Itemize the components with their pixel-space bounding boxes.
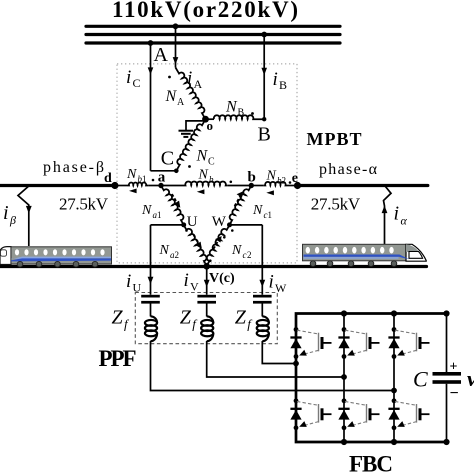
svg-text:+: +: [450, 360, 458, 375]
wire Nb1 to a: [148, 185, 161, 187]
svg-text:d: d: [104, 171, 112, 186]
wire dc-link cap leg: [446, 314, 448, 443]
junction dot leg2 mid: [341, 374, 347, 380]
current arrow iW: [259, 280, 265, 288]
node o: [202, 116, 209, 123]
FBC leg 2: [343, 314, 345, 443]
current arrow Nc1: [235, 193, 243, 206]
svg-text:N: N: [165, 88, 178, 105]
node b: [249, 183, 254, 188]
wire phase-alpha catenary: [298, 184, 428, 187]
node a: [158, 183, 163, 188]
wire phase-beta catenary: [0, 184, 115, 187]
node V on rail: [203, 263, 210, 270]
svg-text:−: −: [450, 385, 459, 402]
bus line 3: [86, 41, 340, 44]
IGBT cell S3 top leg3: [388, 327, 429, 359]
svg-text:N: N: [196, 148, 209, 165]
wire C corner: [151, 170, 177, 172]
winding NA: [176, 65, 209, 119]
wire b to Nb2: [251, 185, 263, 187]
svg-text:1: 1: [142, 174, 147, 184]
junction dot leg3 mid: [391, 388, 397, 394]
svg-text:2: 2: [247, 250, 252, 260]
svg-text:27.5kV: 27.5kV: [311, 195, 361, 214]
node B tap on bus: [261, 32, 267, 38]
winding Nb: [184, 181, 228, 185]
wire phase B feed: [263, 35, 265, 120]
train right: [303, 244, 427, 266]
current arrow i-beta: [26, 206, 32, 214]
svg-text:i: i: [394, 203, 400, 225]
svg-text:i: i: [126, 67, 131, 88]
train left: [0, 247, 112, 267]
svg-text:B: B: [279, 78, 287, 92]
junction dot cap top: [443, 310, 449, 316]
winding Nb1: [127, 182, 148, 185]
svg-text:a: a: [158, 170, 166, 186]
svg-text:N: N: [225, 99, 238, 116]
svg-text:i: i: [273, 69, 278, 90]
current arrow i-alpha: [382, 206, 388, 214]
inductor W branch: [257, 316, 269, 341]
polarity dot Nc2: [223, 236, 226, 239]
polarity dot Nc1: [231, 229, 234, 232]
bus line 1: [86, 25, 340, 28]
IGBT cell S6 bottom leg3: [388, 398, 429, 430]
polarity dot NC: [188, 165, 191, 168]
svg-text:N: N: [198, 168, 209, 183]
polarity arrow Nb2: [266, 190, 274, 195]
junction dot leg2 top: [341, 310, 347, 316]
svg-text:i: i: [126, 271, 131, 292]
bus line 2: [86, 33, 340, 36]
polarity dot Nb1: [152, 179, 155, 182]
IGBT cell S1 top leg1: [290, 327, 331, 359]
IGBT cell S5 bottom leg2: [338, 398, 379, 430]
svg-text:2: 2: [282, 176, 287, 186]
junction dot leg3 top: [391, 310, 397, 316]
wire U filter branch: [151, 225, 395, 391]
FBC bottom rail: [296, 391, 447, 443]
svg-text:o: o: [207, 118, 214, 133]
svg-text:C: C: [208, 157, 215, 168]
polarity arrow Nb: [197, 189, 205, 194]
wire d to Nb1: [115, 185, 127, 187]
svg-text:1: 1: [268, 210, 273, 220]
svg-text:b: b: [248, 170, 256, 186]
svg-text:PPF: PPF: [99, 346, 137, 371]
capacitor V branch: [197, 295, 216, 298]
junction dot leg2 bottom: [341, 439, 347, 445]
current arrow iB: [261, 68, 267, 75]
polarity arrow Nb1: [129, 189, 137, 194]
winding Nb2: [263, 182, 287, 186]
junction dot C winding end: [174, 169, 179, 174]
FBC top rail: [296, 314, 447, 391]
winding Na1: [161, 183, 187, 224]
wire Nb2 to e: [288, 185, 298, 187]
polarity dot NB: [251, 112, 254, 115]
pantograph wire right: [384, 186, 392, 244]
current arrow iV: [204, 280, 210, 288]
svg-text:N: N: [266, 169, 277, 184]
svg-text:2: 2: [175, 250, 180, 260]
IGBT cell S2 top leg2: [338, 327, 379, 359]
wire W tap to right: [230, 224, 263, 226]
node e: [294, 182, 301, 189]
pantograph wire left: [18, 186, 29, 246]
svg-text:110kV(or220kV): 110kV(or220kV): [112, 0, 298, 22]
capacitor U branch: [141, 295, 160, 298]
winding NB: [206, 118, 215, 120]
svg-text:β: β: [9, 213, 16, 227]
wire W filter branch: [262, 225, 296, 364]
current arrow Nc2: [214, 238, 220, 249]
svg-text:N: N: [126, 167, 137, 182]
inductor V branch: [201, 316, 213, 341]
svg-text:A: A: [177, 97, 185, 108]
wire a to Nb: [161, 185, 184, 187]
svg-text:B: B: [258, 124, 271, 146]
svg-text:MPBT: MPBT: [307, 129, 362, 149]
svg-text:i: i: [184, 270, 189, 291]
svg-text:Z: Z: [235, 307, 247, 329]
svg-text:B: B: [238, 108, 245, 119]
inductor U branch: [145, 316, 157, 341]
PPF dashed boundary box: [135, 293, 277, 344]
svg-text:v: v: [467, 366, 474, 391]
svg-text:V: V: [190, 280, 199, 294]
current arrow Na1: [172, 194, 178, 205]
svg-text:N: N: [231, 243, 242, 258]
polarity dot Nb: [230, 181, 233, 184]
wire phase C feed: [150, 43, 152, 171]
MPBT dotted boundary box: [117, 64, 297, 263]
node U tap: [181, 222, 186, 227]
svg-text:C: C: [161, 148, 174, 170]
svg-text:N: N: [141, 203, 152, 218]
ground at node o: [186, 121, 206, 130]
FBC leg 3: [393, 314, 395, 443]
svg-text:e: e: [292, 171, 298, 186]
svg-text:b: b: [209, 175, 214, 185]
svg-text:FBC: FBC: [349, 452, 393, 474]
svg-text:U: U: [133, 281, 142, 295]
svg-text:N: N: [252, 203, 263, 218]
svg-text:A: A: [194, 77, 203, 91]
svg-text:C: C: [413, 367, 428, 392]
svg-text:phase-α: phase-α: [319, 161, 378, 178]
node A tap on bus: [173, 23, 179, 29]
polarity dot Na1: [185, 229, 188, 232]
svg-text:W: W: [212, 214, 227, 230]
current arrow iA: [173, 57, 179, 64]
wire Nb to b: [228, 185, 252, 187]
svg-text:1: 1: [157, 210, 162, 220]
junction dot leg3 bottom: [391, 439, 397, 445]
polarity dot Nb2: [289, 181, 292, 184]
svg-text:A: A: [154, 44, 169, 66]
polarity dot NA: [168, 76, 171, 79]
svg-text:27.5kV: 27.5kV: [59, 195, 109, 214]
wire U tap to left: [151, 224, 184, 226]
current arrow iU: [148, 277, 154, 285]
svg-text:α: α: [401, 214, 408, 228]
svg-text:C: C: [133, 76, 141, 90]
svg-text:i: i: [269, 272, 274, 293]
winding NC: [173, 117, 206, 171]
winding Na2: [184, 223, 211, 266]
svg-text:N: N: [159, 243, 170, 258]
capacitor C dc-link: [433, 372, 462, 376]
node W tap: [227, 222, 232, 227]
rail return line: [0, 265, 427, 268]
junction dot B winding end: [262, 117, 266, 121]
svg-text:U: U: [187, 214, 198, 230]
IGBT cell S4 bottom leg1: [290, 398, 331, 430]
node C tap on bus: [148, 40, 154, 46]
winding Nc1: [226, 184, 251, 225]
svg-text:W: W: [275, 281, 287, 295]
svg-text:i: i: [3, 202, 9, 224]
winding Nc2: [203, 223, 229, 266]
svg-text:V(c): V(c): [209, 271, 235, 286]
junction dot cap bottom: [443, 439, 449, 445]
capacitor W branch: [253, 295, 272, 298]
current arrow iC: [148, 67, 154, 74]
svg-text:c: c: [243, 250, 247, 260]
wire V filter branch: [207, 266, 344, 377]
current arrow Na2: [194, 235, 200, 246]
wire phase A feed: [175, 26, 177, 67]
svg-text:Z: Z: [180, 307, 192, 329]
polarity dot Na2: [209, 259, 212, 262]
svg-text:Z: Z: [112, 307, 124, 329]
node d: [111, 182, 118, 189]
junction dot leg1 mid: [293, 361, 299, 367]
